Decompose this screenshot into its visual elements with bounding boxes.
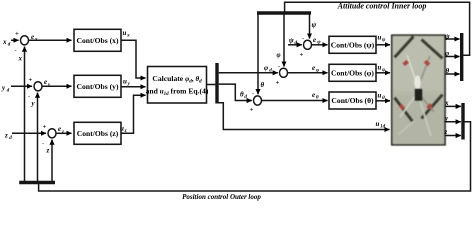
wire theta output [445, 73, 460, 75]
landing rod bottom [420, 101, 431, 136]
svg-text:x: x [2, 38, 7, 46]
block Calculate [148, 67, 207, 104]
svg-text:u: u [376, 120, 380, 128]
svg-text:-: - [42, 140, 44, 147]
svg-text:φ: φ [277, 51, 281, 59]
wire position feedback [39, 122, 471, 191]
wire psi_d input [288, 44, 302, 46]
summing junction theta [254, 96, 262, 105]
svg-text:z: z [124, 129, 127, 134]
svg-text:e: e [313, 36, 316, 44]
svg-text:-: - [278, 63, 280, 70]
svg-text:z: z [61, 130, 64, 135]
block Cont/Obs (z) [74, 122, 121, 144]
wire e_psi [312, 44, 328, 46]
red marker TR [424, 60, 431, 67]
bus bar B3 attitude feedback [257, 11, 311, 14]
svg-text:e: e [312, 64, 315, 72]
block Cont/Obs (x) [74, 29, 121, 51]
frame rod bottom-left [400, 95, 416, 117]
wire y output [445, 121, 461, 123]
svg-text:θ: θ [382, 96, 385, 101]
svg-text:x: x [18, 55, 23, 63]
svg-text:e: e [58, 125, 61, 133]
summing junction phi [280, 68, 288, 77]
svg-text:Position control Outer loop: Position control Outer loop [182, 193, 261, 201]
wire phi_d [219, 72, 278, 74]
svg-text:θ: θ [316, 96, 319, 101]
wire z output [445, 135, 461, 137]
wire u_z [121, 95, 146, 133]
wire u_y [121, 86, 146, 88]
wire y_d input [11, 85, 32, 87]
red marker BL [399, 104, 406, 111]
wire psi output [445, 38, 460, 40]
bus bar B4 position outputs [461, 103, 464, 140]
svg-text:ψ: ψ [312, 21, 317, 29]
wire z_d input [12, 132, 46, 134]
block Cont/Obs (theta) [329, 92, 376, 109]
red marker BR [426, 103, 433, 110]
svg-text:z: z [444, 128, 448, 136]
summing junction y [34, 82, 42, 91]
svg-text:u: u [378, 64, 382, 72]
svg-text:Cont/Obs (θ): Cont/Obs (θ) [331, 96, 374, 105]
svg-text:ψ: ψ [445, 32, 450, 40]
wire e_z [56, 132, 72, 134]
wire phi output [445, 56, 460, 58]
svg-text:+: + [15, 30, 19, 37]
summing junction x [21, 36, 29, 45]
svg-text:ψ: ψ [289, 36, 294, 44]
svg-text:Calculate φd, θd: Calculate φd, θd [152, 74, 202, 85]
block Cont/Obs (phi) [329, 64, 376, 81]
svg-text:φ: φ [445, 49, 449, 57]
svg-text:u: u [378, 34, 382, 42]
frame rod left [407, 55, 418, 87]
svg-text:e: e [312, 91, 315, 99]
bus bar B1 [215, 63, 218, 104]
svg-text:φ: φ [264, 64, 268, 72]
svg-text:+: + [43, 123, 47, 130]
svg-text:φ: φ [316, 68, 319, 73]
svg-text:-: - [28, 93, 30, 100]
svg-text:z: z [4, 132, 8, 140]
bus bar B2 attitude outputs [460, 33, 463, 81]
svg-text:Attitude control Inner loop: Attitude control Inner loop [337, 2, 427, 11]
summing junction z [48, 129, 56, 138]
wire u_psi [376, 44, 390, 46]
svg-text:e: e [31, 33, 34, 41]
wire u_x [121, 40, 146, 78]
svg-text:Cont/Obs (φ): Cont/Obs (φ) [331, 68, 374, 77]
svg-text:e: e [44, 78, 47, 86]
svg-text:+: + [29, 76, 33, 83]
svg-text:-: - [302, 35, 304, 42]
svg-text:u: u [123, 29, 127, 37]
svg-text:and u1d from Eq.(4): and u1d from Eq.(4) [146, 87, 209, 98]
wire x output [445, 105, 461, 107]
wire theta_d [219, 84, 252, 100]
svg-text:Cont/Obs (z): Cont/Obs (z) [77, 129, 119, 138]
wire attitude feedback [285, 2, 470, 55]
center hub white [414, 76, 420, 90]
block Cont/Obs (y) [74, 75, 121, 97]
frame rod right [418, 56, 430, 87]
wire e_phi [288, 72, 328, 74]
svg-text:+: + [276, 79, 280, 86]
wire phi feedback [283, 15, 285, 67]
wire theta feedback [257, 15, 259, 95]
wire y feedback [37, 93, 39, 181]
wire u_theta [376, 100, 390, 102]
frame rod bottom-right [420, 95, 434, 112]
svg-text:-: - [15, 47, 17, 54]
svg-text:θ: θ [261, 81, 265, 89]
rotor arm top-left [393, 35, 414, 58]
red marker TL [402, 60, 409, 67]
quadrotor photo [392, 35, 445, 145]
svg-text:+: + [250, 107, 254, 114]
wire e_y [42, 85, 72, 87]
svg-text:u: u [123, 78, 127, 86]
wire u_1d [217, 103, 390, 130]
rotor arm bottom-left [393, 97, 414, 123]
center battery dark [415, 89, 423, 102]
block Cont/Obs (psi) [329, 36, 376, 53]
wire x feedback [24, 47, 26, 181]
svg-text:1d: 1d [380, 125, 386, 130]
svg-text:z: z [46, 147, 50, 155]
wire e_x [29, 39, 72, 41]
svg-text:φ: φ [382, 68, 385, 73]
wire x_d input [11, 39, 19, 41]
summing junction psi [304, 40, 312, 49]
bus bar B5 position feedback [19, 181, 55, 184]
svg-text:Cont/Obs (x): Cont/Obs (x) [77, 36, 119, 45]
svg-text:θ: θ [446, 67, 450, 75]
svg-text:-: - [252, 91, 254, 98]
wire u_phi [376, 72, 390, 74]
svg-text:u: u [120, 124, 124, 132]
svg-text:+: + [300, 51, 304, 58]
svg-text:x: x [444, 99, 449, 107]
svg-text:x: x [126, 33, 130, 38]
wire psi feedback [309, 15, 311, 39]
svg-text:Cont/Obs (ψ): Cont/Obs (ψ) [331, 40, 375, 49]
svg-text:Cont/Obs (y): Cont/Obs (y) [77, 82, 119, 91]
svg-text:x: x [34, 37, 38, 42]
svg-text:u: u [378, 91, 382, 99]
rotor arm top-right [420, 38, 443, 59]
wire e_theta [262, 100, 328, 102]
wire Calculate output to bus [207, 84, 217, 86]
wire z feedback [51, 140, 53, 181]
svg-text:θ: θ [240, 91, 244, 99]
rotor arm bottom-right [420, 93, 443, 119]
